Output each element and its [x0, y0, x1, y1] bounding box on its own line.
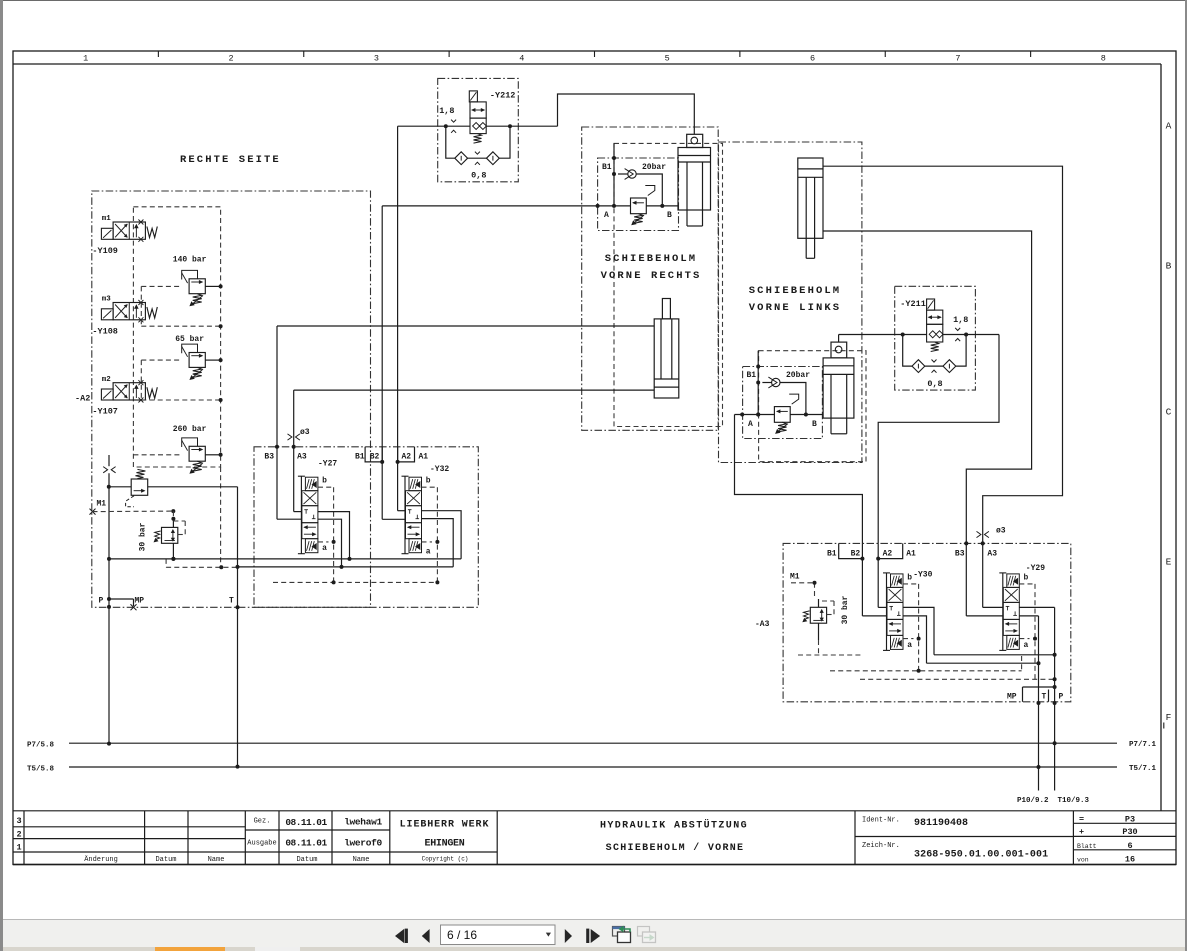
svg-text:Gez.: Gez. — [254, 818, 271, 826]
svg-text:Name: Name — [353, 856, 370, 864]
zone boundary tick E/F — [1163, 723, 1165, 729]
svg-text:3268-950.01.00.001-001: 3268-950.01.00.001-001 — [914, 850, 1048, 861]
svg-text:P30: P30 — [1122, 827, 1137, 837]
svg-text:A1: A1 — [906, 550, 916, 559]
wire -Y27 to P line — [318, 512, 350, 559]
counterbalance valve LINKS — [774, 394, 798, 434]
svg-text:B: B — [667, 211, 672, 220]
cylinder RECHTS lower — [654, 299, 679, 399]
P10 / T10 labels — [1017, 797, 1090, 805]
svg-text:LIEBHERR WERK: LIEBHERR WERK — [400, 820, 490, 831]
wire -Y30 to P line — [903, 607, 934, 654]
wire B3 to RECHTS lower cylinder — [275, 326, 654, 519]
svg-text:A1: A1 — [419, 453, 429, 462]
svg-text:Datum: Datum — [155, 856, 176, 864]
T5 line — [27, 765, 1157, 773]
svg-text:1: 1 — [16, 843, 21, 853]
solenoid valve m1 / -Y109 — [92, 215, 157, 256]
svg-text:m3: m3 — [102, 296, 112, 304]
svg-text:T5/5.8: T5/5.8 — [27, 765, 55, 773]
-Y27 pilot dashed lines — [318, 487, 336, 582]
svg-text:ø3: ø3 — [996, 527, 1006, 536]
wire -Y32 to T line — [422, 519, 454, 567]
svg-text:30 bar: 30 bar — [841, 595, 850, 624]
svg-text:M1: M1 — [97, 500, 107, 509]
cylinder LINKS lower — [823, 342, 854, 434]
svg-text:B: B — [812, 420, 817, 429]
svg-text:30 bar: 30 bar — [139, 522, 148, 551]
wire A3 into -Y27 — [294, 511, 302, 513]
svg-text:a: a — [322, 544, 327, 553]
dash-dot box LINKS inner valve block — [743, 367, 823, 439]
wire -Y211 down to A2 right manifold — [878, 335, 999, 544]
relief valve 140 bar — [141, 256, 222, 329]
wire B2 into -Y30 — [862, 559, 886, 616]
valve -Y211 — [900, 299, 968, 352]
svg-text:65 bar: 65 bar — [175, 335, 204, 344]
svg-text:b: b — [1024, 573, 1029, 582]
wire LINKS A-line down to B2 right manifold — [735, 415, 863, 544]
svg-text:6: 6 — [1127, 841, 1132, 851]
RECHTS A-B wire — [596, 204, 678, 208]
counterbalance valve RECHTS — [631, 186, 655, 226]
svg-text:-Y29: -Y29 — [1026, 564, 1045, 573]
svg-text:140 bar: 140 bar — [173, 256, 207, 265]
svg-text:08.11.01: 08.11.01 — [285, 838, 327, 849]
svg-text:VORNE RECHTS: VORNE RECHTS — [601, 270, 702, 282]
svg-text:B3: B3 — [264, 453, 274, 462]
left manifold port labels — [264, 453, 428, 462]
dash-dot box RECHTE SEITE assembly — [92, 191, 371, 607]
toolbar previous-view icon — [613, 926, 631, 943]
svg-text:B1: B1 — [355, 453, 365, 462]
M1 gauge port — [90, 500, 176, 515]
cylinder LINKS upper — [798, 158, 823, 258]
flow marks -Y212 — [451, 120, 456, 123]
wire -Y29 to P vertical — [1019, 606, 1054, 608]
svg-text:B2: B2 — [370, 453, 380, 462]
toolbar next-view icon (disabled) — [638, 927, 656, 943]
toolbar last-page button — [586, 929, 600, 943]
P7 line — [27, 741, 1157, 750]
svg-text:1: 1 — [83, 54, 88, 64]
svg-text:-Y32: -Y32 — [430, 465, 449, 474]
svg-text:EHINGEN: EHINGEN — [425, 839, 465, 850]
svg-text:m1: m1 — [102, 215, 112, 223]
T vertical (right) — [1038, 616, 1040, 791]
orifice on P rail — [103, 467, 107, 473]
svg-text:B1: B1 — [827, 550, 837, 559]
svg-text:P: P — [99, 596, 104, 605]
svg-text:8: 8 — [1101, 54, 1106, 64]
svg-text:A2: A2 — [402, 453, 412, 462]
svg-text:+: + — [1079, 827, 1084, 837]
wire LINKS upper cylinder top port to A3 — [823, 166, 1063, 543]
ruler column ticks — [158, 51, 1030, 57]
title block text — [16, 815, 1137, 865]
svg-text:Datum: Datum — [296, 856, 317, 864]
svg-text:B1: B1 — [602, 163, 612, 172]
svg-text:lwehaw1: lwehaw1 — [344, 817, 382, 828]
svg-text:3: 3 — [16, 816, 21, 826]
svg-text:C: C — [1166, 407, 1172, 418]
RECHTS A/B labels — [604, 211, 672, 220]
P distribution line (left) — [109, 558, 461, 560]
svg-text:0,8: 0,8 — [927, 379, 942, 389]
svg-text:1,8: 1,8 — [439, 106, 454, 116]
orifice o3 (left manifold) — [288, 428, 310, 440]
svg-text:m2: m2 — [102, 376, 112, 384]
svg-text:a: a — [907, 641, 912, 650]
svg-text:ø3: ø3 — [300, 428, 310, 437]
ruler column numbers 1-8 — [83, 54, 1106, 64]
svg-text:Name: Name — [208, 856, 225, 864]
svg-text:RECHTE SEITE: RECHTE SEITE — [180, 154, 281, 166]
svg-text:b: b — [907, 573, 912, 582]
wire LINKS upper cylinder bottom port to B3 — [823, 231, 1032, 543]
svg-text:T5/7.1: T5/7.1 — [1129, 765, 1157, 773]
drawing frame inner border lines — [13, 64, 1161, 811]
svg-text:1,8: 1,8 — [953, 315, 968, 325]
svg-text:-Y109: -Y109 — [92, 246, 118, 256]
svg-text:260 bar: 260 bar — [173, 425, 207, 434]
dash-dot box RECHTS inner valve block — [598, 158, 679, 231]
dashed box left relief-valve group — [133, 207, 220, 467]
dash-dot box left valve manifold — [254, 447, 478, 608]
valve -Y27 — [298, 460, 338, 554]
svg-text:A: A — [604, 211, 609, 220]
wire A3 to RECHTS lower cylinder — [292, 390, 655, 512]
wire B2 down into -Y32 — [382, 462, 405, 519]
MP / T / P port labels (right) — [1007, 687, 1064, 702]
svg-text:Blatt: Blatt — [1077, 843, 1097, 850]
svg-text:P7/5.8: P7/5.8 — [27, 742, 55, 750]
svg-text:MP: MP — [1007, 693, 1017, 702]
check valve 20bar (LINKS) — [762, 371, 810, 416]
dashed pilot bottom rail (left) — [273, 581, 437, 583]
solenoid valve m3 / -Y108 — [92, 296, 157, 337]
wire -Y212 feed down to port A2 — [397, 126, 399, 462]
wire A3 into -Y29 — [981, 541, 1003, 607]
svg-text:-Y108: -Y108 — [92, 326, 118, 336]
dashed drain rail to T — [166, 467, 237, 569]
dash-dot box SCHIEBEHOLM VORNE LINKS — [719, 142, 862, 463]
svg-text:Zeich-Nr.: Zeich-Nr. — [862, 842, 900, 850]
wire B3 into -Y29 — [964, 541, 1003, 616]
svg-text:M1: M1 — [790, 573, 800, 582]
svg-text:SCHIEBEHOLM: SCHIEBEHOLM — [749, 285, 841, 297]
svg-text:Copyright (c): Copyright (c) — [422, 856, 469, 863]
T return line (left) — [236, 487, 240, 769]
relief valve 260 bar — [133, 425, 222, 474]
reducing valve 30 bar (right) — [791, 581, 862, 655]
orifice o3 (right manifold) — [977, 527, 1006, 538]
svg-text:08.11.01: 08.11.01 — [285, 817, 327, 828]
wire -Y212 to RECHTS cylinder top — [558, 94, 695, 134]
valve -Y30 — [883, 571, 933, 651]
svg-text:20bar: 20bar — [642, 163, 666, 172]
svg-text:A: A — [748, 420, 753, 429]
dash-dot box valve -Y211 — [895, 286, 976, 390]
svg-text:von: von — [1077, 856, 1089, 863]
-Y211 bypass branch 0,8 — [903, 335, 966, 390]
svg-text:-A3: -A3 — [755, 620, 770, 629]
svg-text:A3: A3 — [987, 550, 997, 559]
svg-text:SCHIEBEHOLM / VORNE: SCHIEBEHOLM / VORNE — [606, 842, 745, 854]
svg-text:lwerof0: lwerof0 — [344, 838, 382, 849]
wire -Y30 to T line — [903, 616, 927, 663]
svg-text:981190408: 981190408 — [914, 818, 968, 829]
svg-text:6: 6 — [810, 54, 815, 64]
svg-text:HYDRAULIK ABSTÜTZUNG: HYDRAULIK ABSTÜTZUNG — [600, 819, 748, 832]
wire through -Y211 — [839, 333, 999, 337]
svg-text:P3: P3 — [1125, 815, 1135, 825]
T distribution line (left) — [238, 566, 454, 568]
svg-text:-A2: -A2 — [75, 394, 90, 404]
svg-text:7: 7 — [955, 54, 960, 64]
wire -Y29 to T vertical — [1019, 615, 1038, 617]
svg-text:F: F — [1166, 712, 1172, 723]
svg-text:P10/9.2: P10/9.2 — [1017, 797, 1049, 805]
taskbar orange segment — [155, 947, 225, 951]
P supply rail (left) — [107, 455, 111, 746]
wire LINKS lower cylinder clevis up — [838, 335, 840, 343]
relief valve 65 bar — [141, 335, 222, 402]
svg-text:a: a — [1024, 641, 1029, 650]
svg-text:T: T — [229, 596, 234, 605]
right manifold port tab A2/A1 — [878, 543, 903, 558]
dashed pilot bottom rail (right) — [830, 670, 1022, 672]
svg-text:b: b — [426, 477, 431, 486]
svg-text:b: b — [322, 477, 327, 486]
svg-text:a: a — [426, 548, 431, 557]
svg-text:P7/7.1: P7/7.1 — [1129, 741, 1157, 749]
toolbar prev-page button — [422, 929, 430, 943]
svg-text:Ident-Nr.: Ident-Nr. — [862, 817, 900, 825]
svg-text:2: 2 — [229, 54, 234, 64]
svg-text:Änderung: Änderung — [84, 855, 118, 864]
wire B3 into -Y27 — [277, 518, 301, 520]
solenoid valve m2 / -Y107 — [75, 376, 157, 417]
svg-text:20bar: 20bar — [786, 371, 810, 380]
svg-text:3: 3 — [374, 54, 379, 64]
LINKS port B1 — [747, 351, 761, 417]
-Y32 pilot dashed lines — [422, 487, 440, 582]
P / MP port labels (left) — [99, 596, 145, 610]
svg-text:6 / 16: 6 / 16 — [447, 928, 477, 942]
svg-text:A3: A3 — [297, 453, 307, 462]
dashed box LINKS cylinder circuit — [759, 351, 866, 462]
title block grid — [13, 811, 1176, 865]
svg-text:T: T — [1042, 693, 1047, 702]
svg-text:-Y212: -Y212 — [490, 91, 516, 101]
dash-dot box right valve manifold — [783, 543, 1071, 701]
svg-text:SCHIEBEHOLM: SCHIEBEHOLM — [605, 253, 697, 265]
right manifold port labels — [827, 550, 997, 559]
toolbar first-page button — [395, 929, 408, 944]
dash-dot box SCHIEBEHOLM VORNE RECHTS — [582, 127, 719, 430]
check valve 20bar (RECHTS) — [618, 163, 666, 208]
svg-text:5: 5 — [665, 54, 670, 64]
RECHTS port B1 — [602, 143, 616, 208]
svg-text:0,8: 0,8 — [471, 171, 486, 181]
svg-text:B3: B3 — [955, 550, 965, 559]
svg-text:VORNE LINKS: VORNE LINKS — [749, 302, 841, 314]
valve -Y32 — [402, 465, 450, 557]
T distribution line (right) — [927, 662, 1039, 664]
valve -Y212 — [439, 91, 515, 144]
svg-text:-Y211: -Y211 — [900, 299, 926, 309]
svg-text:-Y30: -Y30 — [913, 571, 932, 580]
-Y212 bypass branch 0,8 — [446, 126, 510, 180]
wire A2 into -Y30 — [878, 559, 886, 608]
flow marks -Y211 — [955, 328, 960, 331]
svg-text:B: B — [1166, 261, 1172, 272]
reducing valve 30 bar (left) — [139, 511, 186, 567]
svg-text:=: = — [1079, 815, 1084, 825]
dash-dot box valve -Y212 — [438, 78, 519, 181]
cylinder RECHTS upper — [678, 134, 711, 226]
toolbar page combobox — [441, 925, 556, 945]
dashed box RECHTS cylinder circuit — [614, 143, 723, 426]
svg-text:2: 2 — [16, 830, 21, 840]
svg-text:A2: A2 — [883, 550, 893, 559]
wire RECHTS A-line down to port B2 — [382, 206, 597, 462]
valve -Y29 — [999, 564, 1045, 650]
wire A2 down into -Y32 — [398, 462, 405, 511]
svg-text:16: 16 — [1125, 854, 1135, 864]
svg-text:P: P — [1059, 693, 1064, 702]
svg-text:Ausgabe: Ausgabe — [247, 840, 276, 848]
svg-text:B1: B1 — [747, 371, 757, 380]
title SCHIEBEHOLM VORNE LINKS — [749, 285, 841, 314]
svg-text:A: A — [1166, 121, 1172, 132]
wire -Y32 to P line — [422, 511, 462, 559]
svg-text:E: E — [1166, 557, 1172, 568]
toolbar next-page button — [565, 929, 572, 943]
svg-text:-Y107: -Y107 — [92, 407, 118, 417]
P distribution line (right) — [934, 654, 1055, 656]
wire through -Y212 — [398, 124, 558, 128]
svg-text:-Y27: -Y27 — [318, 460, 337, 469]
svg-text:T10/9.3: T10/9.3 — [1058, 797, 1090, 805]
LINKS A/B labels — [748, 420, 817, 429]
LINKS A-B wire — [735, 413, 824, 417]
zone letters A-F — [1166, 121, 1172, 724]
svg-text:B2: B2 — [851, 550, 861, 559]
left manifold port tab A2/A1 — [398, 447, 415, 462]
-Y30 pilot dashed lines — [903, 584, 921, 671]
left manifold port tab B1/B2 — [365, 447, 382, 462]
svg-text:4: 4 — [519, 54, 524, 64]
svg-text:MP: MP — [135, 596, 145, 605]
wire -Y27 to T line — [318, 519, 342, 567]
pump pilot relief valve — [107, 469, 238, 506]
M1 / -A3 labels (right manifold) — [755, 573, 800, 630]
title SCHIEBEHOLM VORNE RECHTS — [601, 253, 702, 282]
right manifold port tab B1/B2 — [839, 543, 863, 558]
P vertical (right) — [1054, 607, 1056, 790]
-Y29 pilot dashed lines — [1019, 584, 1037, 679]
